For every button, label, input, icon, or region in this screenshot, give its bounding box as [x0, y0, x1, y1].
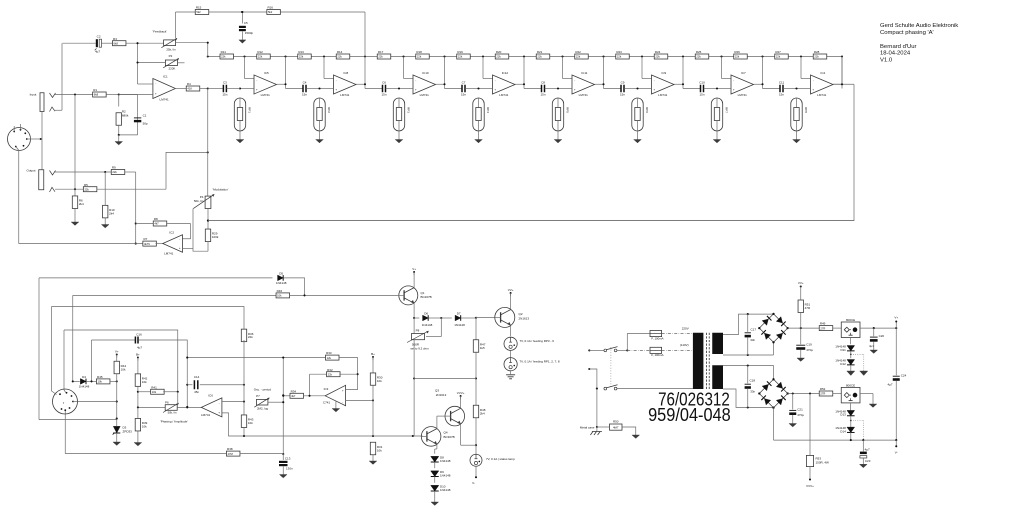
svg-text:R52: R52 — [820, 387, 826, 391]
svg-text:P6: P6 — [165, 401, 169, 405]
svg-text:15n: 15n — [222, 92, 227, 96]
svg-text:2k4: 2k4 — [109, 211, 114, 215]
svg-text:D12: D12 — [840, 362, 846, 366]
svg-text:IC8: IC8 — [344, 71, 349, 75]
svg-text:25k, lin: 25k, lin — [166, 47, 176, 51]
svg-text:15n: 15n — [302, 92, 307, 96]
svg-text:R22: R22 — [575, 50, 581, 54]
svg-text:22k: 22k — [112, 170, 117, 174]
svg-text:set to 9.2 ohm: set to 9.2 ohm — [410, 346, 429, 350]
svg-text:6k8: 6k8 — [114, 41, 119, 45]
svg-text:LM741: LM741 — [499, 93, 509, 97]
svg-text:41K: 41K — [187, 87, 192, 91]
svg-text:IC4: IC4 — [821, 71, 826, 75]
svg-text:'Modulation': 'Modulation' — [213, 188, 229, 192]
svg-text:C9: C9 — [621, 81, 625, 85]
svg-text:22k: 22k — [337, 55, 342, 59]
svg-text:D5: D5 — [279, 271, 283, 275]
svg-text:LM741: LM741 — [658, 93, 668, 97]
svg-text:R28: R28 — [814, 50, 820, 54]
svg-text:V+: V+ — [894, 316, 898, 320]
svg-text:22k: 22k — [696, 55, 701, 59]
svg-text:LM741: LM741 — [420, 93, 430, 97]
svg-text:33n: 33n — [750, 338, 755, 342]
svg-text:D4: D4 — [82, 375, 86, 379]
svg-text:22k: 22k — [735, 55, 740, 59]
svg-text:Osc. - period: Osc. - period — [254, 387, 272, 391]
svg-text:4k7: 4k7 — [291, 394, 296, 398]
svg-text:R32: R32 — [327, 368, 333, 372]
svg-text:V-: V- — [472, 481, 475, 485]
svg-text:C4: C4 — [303, 81, 307, 85]
svg-text:R5: R5 — [84, 183, 88, 187]
svg-text:LM741: LM741 — [201, 413, 211, 417]
svg-text:50k, lin: 50k, lin — [168, 410, 177, 414]
svg-text:47M: 47M — [228, 452, 234, 456]
svg-text:Bernard d'Uur: Bernard d'Uur — [880, 44, 917, 50]
svg-text:C3: C3 — [223, 81, 227, 85]
svg-text:22k: 22k — [496, 55, 501, 59]
svg-text:+: + — [335, 87, 337, 91]
svg-text:50p: 50p — [143, 122, 148, 126]
svg-text:Metal case: Metal case — [580, 425, 595, 429]
svg-text:-: - — [654, 78, 655, 82]
svg-text:C16: C16 — [136, 332, 142, 336]
svg-text:15n: 15n — [540, 92, 545, 96]
svg-text:F, 100mA: F, 100mA — [651, 353, 663, 357]
svg-text:+: + — [415, 87, 417, 91]
svg-text:800CE: 800CE — [846, 318, 855, 322]
svg-text:2k4: 2k4 — [79, 202, 84, 206]
svg-text:-: - — [336, 78, 337, 82]
svg-text:R45: R45 — [97, 375, 103, 379]
svg-text:RP6: RP6 — [645, 107, 649, 113]
svg-text:R14: R14 — [337, 50, 343, 54]
svg-text:10k: 10k — [377, 379, 382, 383]
svg-text:ZPD33: ZPD33 — [123, 429, 133, 433]
svg-text:27R: 27R — [820, 326, 825, 330]
svg-text:IC2: IC2 — [169, 231, 174, 235]
svg-text:12k: 12k — [327, 356, 332, 360]
svg-text:15n: 15n — [779, 92, 784, 96]
svg-text:C21: C21 — [797, 408, 803, 412]
svg-text:IC9: IC9 — [662, 71, 667, 75]
svg-text:R12: R12 — [257, 50, 263, 54]
svg-text:C2: C2 — [97, 35, 101, 39]
svg-text:C23: C23 — [865, 459, 871, 463]
svg-text:130n: 130n — [286, 466, 293, 470]
svg-text:Output: Output — [26, 169, 35, 173]
svg-text:R16: R16 — [267, 6, 273, 10]
svg-text:22k: 22k — [576, 55, 581, 59]
svg-text:22k: 22k — [378, 55, 383, 59]
svg-text:+: + — [812, 87, 814, 91]
svg-text:100k: 100k — [212, 235, 219, 239]
svg-text:50k, lin: 50k, lin — [194, 199, 204, 203]
svg-text:'Phasing / Amplitude': 'Phasing / Amplitude' — [160, 419, 188, 423]
svg-text:C19: C19 — [806, 342, 812, 346]
svg-text:C17: C17 — [751, 327, 757, 331]
svg-text:2N1613: 2N1613 — [436, 393, 447, 397]
svg-text:LM741: LM741 — [261, 93, 271, 97]
svg-text:R27: R27 — [775, 50, 781, 54]
svg-text:1N4148: 1N4148 — [440, 459, 451, 463]
svg-text:+: + — [653, 87, 655, 91]
svg-text:4k7: 4k7 — [154, 222, 159, 226]
svg-text:C6: C6 — [382, 81, 386, 85]
svg-text:45n: 45n — [194, 390, 199, 394]
svg-text:V-: V- — [895, 450, 898, 454]
svg-text:22k: 22k — [258, 55, 263, 59]
svg-text:33n: 33n — [750, 390, 755, 394]
svg-text:15n: 15n — [699, 92, 704, 96]
svg-text:P2: P2 — [169, 54, 173, 58]
svg-text:22k: 22k — [221, 55, 226, 59]
svg-text:1500p: 1500p — [245, 31, 254, 35]
svg-text:-: - — [219, 401, 220, 405]
svg-text:IC11: IC11 — [581, 71, 587, 75]
svg-text:P8: P8 — [416, 329, 420, 333]
svg-text:RP7: RP7 — [725, 107, 729, 113]
svg-text:22k: 22k — [814, 55, 819, 59]
svg-text:R1: R1 — [93, 88, 97, 92]
svg-text:22k: 22k — [617, 55, 622, 59]
svg-text:15n: 15n — [461, 92, 466, 96]
svg-text:RP3: RP3 — [407, 107, 411, 113]
svg-text:10k: 10k — [377, 448, 382, 452]
svg-text:150R, 4W: 150R, 4W — [816, 461, 830, 465]
svg-text:-: - — [813, 78, 814, 82]
svg-text:R46: R46 — [277, 289, 283, 293]
svg-text:R24: R24 — [655, 50, 661, 54]
svg-text:D13: D13 — [840, 413, 846, 417]
svg-text:'Feedback': 'Feedback' — [153, 30, 168, 34]
svg-text:LM741: LM741 — [817, 93, 827, 97]
svg-text:15n: 15n — [381, 92, 386, 96]
svg-text:-: - — [179, 237, 180, 241]
svg-text:P7: P7 — [256, 394, 260, 398]
svg-text:IC10: IC10 — [422, 71, 429, 75]
svg-text:IC7: IC7 — [741, 71, 746, 75]
svg-text:22k: 22k — [458, 55, 463, 59]
svg-text:VVV+: VVV+ — [806, 484, 814, 488]
svg-text:6k8: 6k8 — [94, 93, 99, 97]
svg-text:+: + — [155, 92, 157, 96]
svg-text:D6: D6 — [424, 311, 428, 315]
svg-text:-: - — [733, 78, 734, 82]
svg-text:Q3: Q3 — [435, 388, 439, 392]
svg-text:R25: R25 — [696, 50, 702, 54]
svg-text:Compact phasing 'A': Compact phasing 'A' — [880, 30, 934, 36]
svg-text:C10: C10 — [699, 81, 705, 85]
svg-text:R4: R4 — [187, 82, 191, 86]
svg-text:22k: 22k — [417, 55, 422, 59]
svg-text:4µ7: 4µ7 — [888, 383, 893, 387]
svg-text:C1: C1 — [143, 114, 147, 118]
svg-text:4µ7: 4µ7 — [865, 447, 870, 451]
svg-text:18-04-2024: 18-04-2024 — [880, 51, 911, 57]
svg-text:IC1: IC1 — [163, 74, 168, 78]
svg-text:R50: R50 — [613, 420, 619, 424]
svg-text:LM741: LM741 — [164, 252, 174, 256]
svg-text:22k: 22k — [248, 335, 253, 339]
svg-text:LM741: LM741 — [340, 93, 350, 97]
svg-text:B+: B+ — [371, 352, 375, 356]
svg-text:470µ: 470µ — [806, 348, 813, 352]
svg-text:+: + — [342, 389, 344, 393]
svg-text:4M7: 4M7 — [613, 426, 619, 430]
svg-text:RP2: RP2 — [327, 107, 331, 113]
svg-text:10k: 10k — [98, 380, 103, 384]
svg-text:BC307B: BC307B — [444, 435, 455, 439]
svg-text:C5: C5 — [244, 21, 248, 25]
svg-text:LM741: LM741 — [738, 93, 748, 97]
svg-text:LM741: LM741 — [160, 97, 170, 101]
svg-text:VVV+: VVV+ — [457, 391, 465, 395]
svg-text:R49: R49 — [820, 322, 826, 326]
svg-text:-: - — [415, 78, 416, 82]
svg-text:1N4148: 1N4148 — [454, 323, 465, 327]
svg-text:C20: C20 — [879, 334, 885, 338]
svg-text:R9: R9 — [112, 166, 116, 170]
svg-text:10k: 10k — [121, 367, 126, 371]
svg-text:1k5: 1k5 — [480, 346, 485, 350]
svg-text:10k: 10k — [248, 421, 253, 425]
svg-text:2k4: 2k4 — [480, 411, 485, 415]
svg-text:-: - — [342, 400, 343, 404]
svg-text:C741: C741 — [323, 400, 331, 404]
svg-text:4k79: 4k79 — [144, 242, 150, 246]
svg-text:R23: R23 — [616, 50, 622, 54]
svg-text:RP8: RP8 — [804, 107, 808, 113]
svg-text:-: - — [574, 78, 575, 82]
svg-text:+: + — [494, 87, 496, 91]
svg-text:C13: C13 — [285, 457, 291, 461]
svg-text:R17: R17 — [378, 50, 384, 54]
svg-text:F, 100mA: F, 100mA — [651, 336, 663, 340]
svg-text:R15: R15 — [196, 6, 202, 10]
svg-text:+: + — [218, 410, 220, 414]
svg-text:1N4148: 1N4148 — [276, 281, 287, 285]
svg-text:1N4148: 1N4148 — [422, 323, 433, 327]
svg-text:7V, 0.1A / feeding RP3 - 6: 7V, 0.1A / feeding RP3 - 6 — [520, 339, 555, 343]
svg-text:IC5: IC5 — [264, 71, 269, 75]
svg-text:-: - — [155, 82, 156, 86]
svg-text:470µ: 470µ — [797, 413, 804, 417]
svg-text:+: + — [574, 87, 576, 91]
svg-text:BC207B: BC207B — [421, 295, 432, 299]
svg-text:Input: Input — [30, 93, 37, 97]
svg-text:959/04-048: 959/04-048 — [648, 404, 731, 425]
svg-text:D14: D14 — [840, 429, 846, 433]
svg-text:R20: R20 — [496, 50, 502, 54]
svg-text:D11: D11 — [841, 348, 847, 352]
svg-text:RP4: RP4 — [486, 107, 490, 113]
svg-text:2M2, log: 2M2, log — [257, 407, 268, 411]
svg-text:RP5: RP5 — [566, 107, 570, 113]
svg-text:C18: C18 — [750, 379, 756, 383]
svg-text:V+: V+ — [412, 267, 416, 271]
svg-text:R26: R26 — [734, 50, 740, 54]
svg-text:C11: C11 — [779, 81, 785, 85]
svg-text:V+: V+ — [115, 350, 119, 354]
svg-text:22k: 22k — [655, 55, 660, 59]
svg-text:220V: 220V — [682, 327, 689, 331]
svg-text:7V, 0.1A / feeding RP1, 2, 7,: 7V, 0.1A / feeding RP1, 2, 7, 8 — [520, 359, 560, 363]
svg-text:IC6: IC6 — [208, 394, 213, 398]
svg-text:V1.0: V1.0 — [880, 57, 893, 63]
svg-text:-: - — [495, 78, 496, 82]
svg-text:22k: 22k — [328, 372, 333, 376]
svg-text:R38: R38 — [227, 447, 233, 451]
svg-text:R19: R19 — [457, 50, 463, 54]
svg-text:C24: C24 — [901, 373, 907, 377]
svg-text:R34: R34 — [291, 389, 297, 393]
svg-text:R33: R33 — [326, 351, 332, 355]
svg-text:-: - — [256, 78, 257, 82]
svg-text:2N1613: 2N1613 — [519, 316, 530, 320]
svg-text:R18: R18 — [416, 50, 422, 54]
svg-text:R21: R21 — [537, 50, 543, 54]
svg-text:10k: 10k — [277, 294, 282, 298]
svg-text:4µ7: 4µ7 — [137, 345, 142, 349]
svg-text:10k: 10k — [142, 380, 147, 384]
svg-text:5k2: 5k2 — [268, 10, 273, 14]
svg-text:+: + — [256, 87, 258, 91]
svg-text:10k: 10k — [152, 390, 157, 394]
svg-text:15n: 15n — [620, 92, 625, 96]
svg-text:Gerd Schulte Audio Elektronik: Gerd Schulte Audio Elektronik — [880, 23, 958, 29]
svg-text:1N4148: 1N4148 — [440, 473, 451, 477]
svg-text:VV+: VV+ — [798, 281, 804, 285]
svg-text:R8: R8 — [154, 217, 158, 221]
svg-text:1N4148: 1N4148 — [440, 488, 451, 492]
svg-text:R41: R41 — [151, 385, 157, 389]
svg-text:B+: B+ — [136, 353, 140, 357]
svg-text:680k: 680k — [122, 113, 129, 117]
svg-text:C8: C8 — [541, 81, 545, 85]
svg-text:27R: 27R — [820, 392, 825, 396]
svg-text:LM741: LM741 — [579, 93, 589, 97]
svg-text:10k: 10k — [142, 425, 147, 429]
svg-text:22k: 22k — [299, 55, 304, 59]
svg-text:5k2: 5k2 — [196, 10, 201, 14]
svg-text:22k: 22k — [776, 55, 781, 59]
svg-text:D7: D7 — [457, 311, 461, 315]
svg-text:22k: 22k — [84, 187, 89, 191]
svg-text:47R: 47R — [805, 306, 811, 310]
svg-text:(110V): (110V) — [680, 343, 689, 347]
svg-text:C7: C7 — [462, 81, 466, 85]
svg-text:220K: 220K — [169, 66, 176, 70]
svg-text:800CE: 800CE — [846, 383, 855, 387]
svg-text:RP1: RP1 — [248, 107, 252, 113]
svg-text:C14: C14 — [194, 375, 200, 379]
svg-text:R13: R13 — [298, 50, 304, 54]
svg-text:+: + — [733, 87, 735, 91]
svg-text:4µ7: 4µ7 — [95, 50, 100, 54]
svg-text:VV+: VV+ — [508, 288, 514, 292]
svg-text:22k: 22k — [537, 55, 542, 59]
svg-text:R11: R11 — [221, 50, 227, 54]
svg-text:IC3: IC3 — [324, 387, 329, 391]
svg-text:R3: R3 — [113, 37, 117, 41]
svg-text:7V, 0.1A | status lamp: 7V, 0.1A | status lamp — [486, 457, 515, 461]
svg-text:IC12: IC12 — [502, 71, 509, 75]
svg-text:+: + — [179, 246, 181, 250]
svg-text:1N4148: 1N4148 — [79, 385, 90, 389]
svg-text:R7: R7 — [143, 237, 147, 241]
